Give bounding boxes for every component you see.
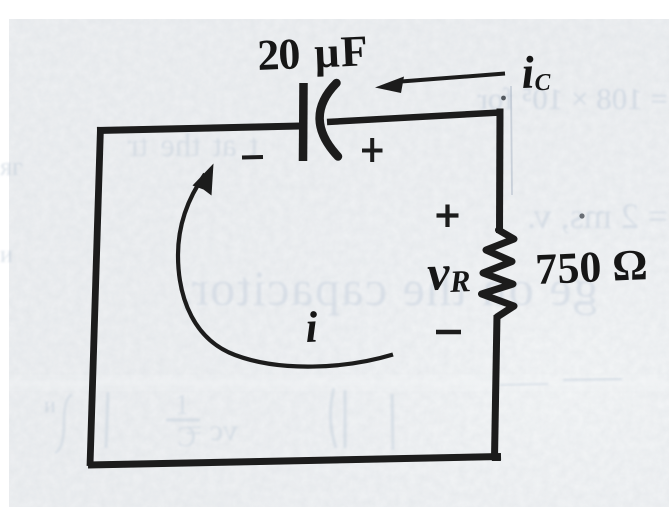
svg-text:20: 20 bbox=[256, 29, 300, 80]
wire: bottom bbox=[88, 457, 501, 466]
capacitor value label 20 uF bbox=[256, 26, 370, 80]
svg-text:и: и bbox=[44, 392, 56, 417]
resistor minus sign bbox=[436, 330, 461, 335]
resistor R1 zigzag bbox=[482, 230, 515, 317]
svg-text:750 Ω: 750 Ω bbox=[534, 240, 648, 294]
faint vertical crease bbox=[511, 86, 512, 195]
resistor value label 750 ohms bbox=[534, 240, 648, 294]
bleed-through left-edge marks bbox=[0, 152, 56, 417]
svg-text:и: и bbox=[0, 242, 13, 268]
capacitor plus sign bbox=[362, 138, 383, 162]
ink speck above corner bbox=[501, 96, 506, 101]
bleed-through text row 2 (mirrored) bbox=[527, 196, 668, 236]
label vR bbox=[426, 243, 471, 301]
current arrow iC (pointing left) bbox=[401, 74, 505, 82]
capacitor C1 right curved plate bbox=[320, 83, 338, 157]
loop current arrow i (curved) bbox=[178, 174, 393, 367]
label i bbox=[304, 302, 319, 352]
svg-text:= 2 ms, v.: = 2 ms, v. bbox=[527, 196, 668, 236]
capacitor minus sign bbox=[242, 155, 263, 160]
svg-text:vc =: vc = bbox=[185, 414, 238, 447]
wire: left side bbox=[90, 127, 101, 466]
wire: top-left segment bbox=[97, 126, 300, 131]
light scanner streak bbox=[0, 0, 1, 1]
resistor plus sign bbox=[437, 205, 459, 228]
corner blob bbox=[490, 455, 501, 461]
faint bleed dashes bottom right bbox=[500, 379, 622, 385]
wire: right side upper bbox=[496, 109, 504, 234]
bleed-through text row 1 (mirrored) bbox=[477, 81, 668, 116]
wire: right side lower bbox=[495, 315, 498, 458]
svg-text:t at the tr: t at the tr bbox=[128, 128, 258, 164]
svg-text:яг: яг bbox=[0, 152, 23, 181]
capacitor C1 left plate bbox=[299, 83, 308, 161]
bleed-through text row 1b (mirrored, under top wire) bbox=[128, 128, 258, 164]
bleed-through formula block (mirrored) bbox=[55, 388, 393, 453]
svg-text:μF: μF bbox=[313, 26, 370, 77]
bleed-through text row 3 (mirrored) bbox=[179, 260, 598, 316]
ink speck bbox=[579, 213, 584, 218]
label iC bbox=[520, 46, 552, 98]
wire: top-right segment bbox=[327, 113, 500, 123]
